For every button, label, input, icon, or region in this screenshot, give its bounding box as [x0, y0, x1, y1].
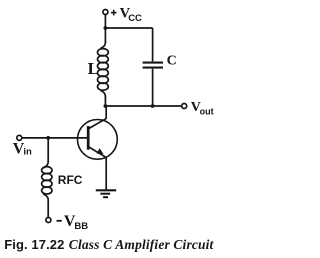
transistor Q1 circle	[78, 119, 118, 159]
wire base lead	[22, 137, 87, 139]
label Vout	[191, 100, 214, 116]
svg-text:in: in	[23, 147, 32, 158]
svg-text:BB: BB	[74, 221, 88, 232]
terminal Vin	[17, 135, 22, 140]
junction collector rail left	[104, 104, 108, 108]
junction capacitor bottom	[151, 104, 155, 108]
svg-text:L: L	[88, 59, 99, 78]
svg-text:out: out	[200, 106, 214, 116]
label Vin	[13, 140, 32, 157]
svg-text:RFC: RFC	[58, 173, 83, 187]
inductor L coil	[98, 41, 109, 98]
wire L top lead	[104, 28, 106, 42]
wire emitter vertical to ground	[105, 158, 107, 191]
transistor Q1 base bar	[87, 126, 90, 150]
wire collector rail to Vout	[105, 105, 181, 107]
junction base node	[46, 136, 50, 140]
ground bar 3	[103, 196, 108, 198]
wire L bottom lead	[104, 97, 106, 107]
svg-text:CC: CC	[128, 13, 142, 24]
wire node A to capacitor branch	[105, 27, 153, 29]
junction node A	[104, 26, 108, 30]
ground bar 2	[100, 193, 110, 195]
inductor RFC coil	[42, 161, 52, 202]
svg-text:C: C	[167, 53, 177, 68]
wire capacitor top lead	[152, 28, 154, 61]
wire collector vertical	[105, 106, 107, 119]
terminal +VCC	[103, 10, 108, 15]
capacitor C plate bottom	[143, 67, 163, 69]
wire Vcc terminal to node A	[104, 15, 106, 28]
transistor Q1 emitter arrow	[97, 148, 104, 154]
svg-text:Class C Amplifier Circuit: Class C Amplifier Circuit	[69, 237, 215, 252]
wire RFC bottom lead	[47, 200, 49, 217]
terminal Vout	[182, 104, 187, 109]
wire RFC top lead	[47, 138, 49, 162]
svg-text:Fig. 17.22: Fig. 17.22	[4, 237, 64, 252]
wire capacitor bottom lead	[152, 69, 154, 106]
ground bar 1	[96, 189, 116, 191]
terminal -VBB	[46, 218, 51, 223]
capacitor C plate top	[143, 62, 163, 64]
transistor Q1 collector diagonal	[89, 118, 107, 128]
label -VBB	[57, 213, 89, 232]
transistor Q1 emitter diagonal	[89, 147, 107, 158]
label +VCC	[111, 6, 142, 24]
